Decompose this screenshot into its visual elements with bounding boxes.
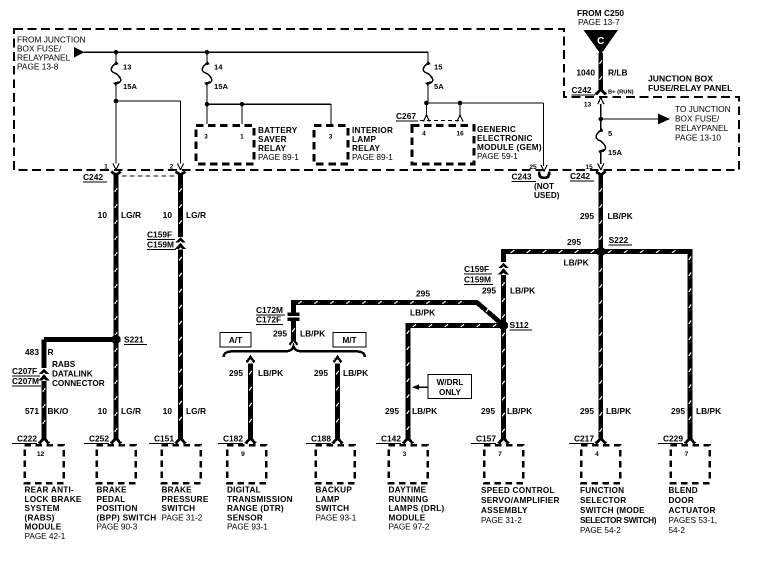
svg-text:S222: S222: [609, 235, 629, 245]
label 5A fuse15: [434, 82, 444, 91]
wire 571 BK/O: [43, 381, 46, 436]
pin arrow C242 pin1: [113, 164, 119, 171]
svg-text:RABS: RABS: [52, 360, 76, 369]
svg-text:SWITCH: SWITCH: [162, 504, 196, 513]
fuse 13: [111, 61, 121, 86]
wire 1040 R/LB: [600, 53, 603, 87]
connector C188: [306, 434, 355, 484]
svg-text:7: 7: [498, 451, 502, 458]
wire fuse14 to relays: [206, 84, 208, 124]
label fuse 14: [214, 63, 223, 72]
svg-text:CONNECTOR: CONNECTOR: [52, 379, 105, 388]
svg-text:SELECTOR SWITCH): SELECTOR SWITCH): [580, 516, 657, 525]
pin 1 battery saver: [240, 134, 244, 141]
svg-text:BK/O: BK/O: [48, 406, 69, 416]
label 15A fuse5: [608, 148, 622, 157]
svg-text:BRAKE: BRAKE: [97, 486, 128, 495]
wire GEM pin16 drop: [459, 103, 461, 115]
svg-text:PAGE 59-1: PAGE 59-1: [477, 152, 518, 161]
wire feed bus: [84, 51, 428, 53]
svg-text:SELECTOR: SELECTOR: [580, 496, 626, 505]
connector C242 dashed link: [122, 175, 175, 177]
wire fuse13 to C242 pin1: [115, 84, 117, 164]
svg-text:C222: C222: [17, 434, 37, 444]
svg-text:S112: S112: [510, 320, 529, 330]
wire 10 LG/R second upper: [179, 181, 182, 237]
label brake pressure switch: [162, 486, 209, 523]
svg-text:PAGE 54-2: PAGE 54-2: [580, 526, 621, 535]
svg-text:SWITCH: SWITCH: [316, 504, 350, 513]
svg-text:LB/PK: LB/PK: [507, 406, 532, 416]
svg-text:LOCK BRAKE: LOCK BRAKE: [25, 495, 82, 504]
svg-text:R/LB: R/LB: [608, 68, 628, 78]
M/T box: [333, 333, 366, 348]
svg-text:A/T: A/T: [229, 336, 242, 345]
label S221: [124, 335, 147, 345]
svg-text:3: 3: [329, 134, 333, 141]
svg-text:LB/PK: LB/PK: [606, 406, 631, 416]
label function selector switch: [580, 486, 657, 535]
svg-text:C267: C267: [396, 111, 416, 121]
label fuse 5: [608, 129, 613, 138]
svg-text:PAGE 13-7: PAGE 13-7: [578, 17, 620, 27]
svg-text:295: 295: [580, 211, 594, 221]
svg-text:C242: C242: [572, 85, 592, 95]
wire C172 drop upper: [291, 300, 296, 313]
label 10 LG/R lower1: [98, 406, 141, 416]
connector C243 cup: [539, 172, 549, 178]
svg-text:FUNCTION: FUNCTION: [580, 486, 624, 495]
connector C267 label: [396, 111, 418, 121]
connector C242 left label: [83, 172, 107, 182]
svg-text:483: 483: [25, 347, 39, 357]
pin 3 battery saver: [204, 134, 208, 141]
svg-text:C217: C217: [574, 434, 594, 444]
svg-text:9: 9: [241, 451, 245, 458]
label FROM JUNCTION BOX FUSE/RELAYPANEL PAGE 13-8: [17, 35, 86, 72]
node to-junction tap: [599, 117, 604, 122]
label C172M: [256, 305, 285, 315]
svg-text:1040: 1040: [576, 68, 595, 78]
svg-text:B+ (RUN): B+ (RUN): [608, 90, 634, 96]
fuse 15: [423, 61, 433, 86]
svg-text:RANGE (DTR): RANGE (DTR): [227, 504, 284, 513]
svg-text:RUNNING: RUNNING: [389, 495, 429, 504]
connector C159F/C159M right: [498, 263, 510, 275]
wire interior relay pin3 drop: [330, 104, 332, 124]
svg-text:S221: S221: [124, 335, 144, 345]
label 295 LB/PK main lower: [580, 406, 631, 416]
svg-text:5A: 5A: [434, 82, 444, 91]
svg-text:295: 295: [416, 289, 430, 299]
svg-text:10: 10: [98, 406, 108, 416]
chevron M/T branch top: [334, 357, 342, 362]
wire fuse5 upper: [600, 104, 602, 130]
W/DRL arrow: [412, 384, 428, 390]
wire 10 LG/R left: [115, 181, 118, 436]
svg-text:LAMP: LAMP: [352, 135, 376, 144]
label 10 LG/R lower2: [163, 406, 206, 416]
connector C151: [149, 434, 201, 484]
label 571 BK/O: [25, 406, 69, 416]
label generic electronic module: [477, 125, 542, 161]
wire fuse5 lower: [600, 152, 602, 164]
svg-text:13: 13: [584, 102, 592, 109]
wire C172 horizontal: [291, 301, 478, 304]
wire S112 to C157: [502, 326, 505, 437]
svg-text:C172M: C172M: [256, 305, 283, 315]
label R/LB: [608, 68, 628, 78]
svg-text:ACTUATOR: ACTUATOR: [669, 506, 716, 515]
svg-text:PAGE 89-1: PAGE 89-1: [258, 153, 299, 162]
label junction box fuse/relay panel: [648, 74, 732, 94]
pin chevron GEM pin16: [457, 115, 463, 122]
connector C142: [376, 434, 428, 484]
svg-text:15A: 15A: [123, 82, 137, 91]
svg-text:295: 295: [671, 406, 685, 416]
svg-text:295: 295: [385, 406, 399, 416]
svg-text:295: 295: [567, 237, 581, 247]
label LB/PK under c172 horiz: [410, 308, 435, 318]
label 295 LB/PK c157: [481, 406, 532, 416]
label not used: [534, 182, 560, 200]
label 15A fuse13: [123, 82, 137, 91]
svg-text:10: 10: [163, 406, 173, 416]
svg-text:POSITION: POSITION: [97, 504, 138, 513]
svg-text:BLEND: BLEND: [669, 486, 698, 495]
svg-text:PAGE 13-8: PAGE 13-8: [17, 62, 59, 72]
pin chevron GEM pin4: [424, 115, 430, 122]
label 295 LB/PK c142: [385, 406, 437, 416]
label C172F: [256, 315, 283, 325]
svg-text:DAYTIME: DAYTIME: [389, 486, 427, 495]
label 295 LB/PK c172: [273, 329, 325, 339]
wire battery saver pin1 drop: [241, 104, 243, 124]
wire A/T branch: [249, 364, 252, 437]
svg-text:LAMPS (DRL): LAMPS (DRL): [389, 504, 445, 513]
svg-text:PAGE 42-1: PAGE 42-1: [25, 532, 66, 541]
connector C172M/C172F: [288, 313, 300, 322]
svg-text:LB/PK: LB/PK: [510, 286, 535, 296]
connector C217: [569, 434, 620, 484]
svg-text:FUSE/RELAY PANEL: FUSE/RELAY PANEL: [648, 83, 732, 93]
svg-text:W/DRL: W/DRL: [437, 378, 464, 387]
svg-text:13: 13: [123, 63, 131, 72]
svg-text:SERVO/AMPLIFIER: SERVO/AMPLIFIER: [481, 496, 560, 505]
svg-text:SWITCH (MODE: SWITCH (MODE: [580, 506, 645, 515]
label fuse 13: [123, 63, 131, 72]
label 483 R: [25, 347, 54, 357]
node relay bus left: [205, 102, 210, 107]
label DRL module: [389, 486, 445, 532]
svg-text:12: 12: [37, 451, 45, 458]
label TO JUNCTION BOX FUSE/RELAYPANEL PAGE 13-10: [675, 104, 731, 143]
wire GEM bus to C243: [543, 103, 545, 166]
wire C172 drop lower: [292, 321, 295, 341]
label fuse 15: [434, 63, 443, 72]
wire M/T branch: [336, 364, 339, 437]
svg-text:INTERIOR: INTERIOR: [352, 126, 393, 135]
svg-text:PAGE 90-3: PAGE 90-3: [97, 523, 138, 532]
brace A/T M/T: [224, 346, 366, 357]
wire 483 R: [44, 340, 116, 369]
connector C243 label: [512, 172, 537, 182]
battery saver relay box: [196, 126, 254, 165]
arrow from junction box feed: [74, 47, 85, 57]
label 1040: [576, 68, 595, 78]
svg-text:SAVER: SAVER: [258, 135, 287, 144]
svg-text:JUNCTION BOX: JUNCTION BOX: [648, 74, 713, 84]
svg-text:295: 295: [482, 286, 496, 296]
pin 3 interior relay: [329, 134, 333, 141]
node fuse14 tap: [205, 50, 210, 55]
svg-text:LAMP: LAMP: [316, 495, 340, 504]
svg-text:LG/R: LG/R: [121, 210, 141, 220]
svg-text:LB/PK: LB/PK: [258, 368, 283, 378]
wire 10 LG/R second lower: [179, 250, 182, 437]
label RABS datalink connector: [52, 360, 105, 388]
pin arrow fuse5 top: [598, 98, 604, 105]
wire relay bus: [207, 103, 331, 105]
svg-text:25: 25: [529, 164, 537, 171]
svg-text:15A: 15A: [214, 82, 228, 91]
triangle connector C: [584, 30, 619, 55]
pin 16 GEM: [456, 131, 464, 138]
svg-text:4: 4: [422, 131, 426, 138]
label C159F right: [464, 264, 492, 274]
pin 15 label: [585, 164, 593, 171]
svg-text:C: C: [597, 36, 604, 47]
svg-text:4: 4: [595, 451, 599, 458]
label BPP switch: [97, 486, 157, 532]
svg-text:C242: C242: [83, 172, 103, 182]
svg-text:1: 1: [240, 134, 244, 141]
svg-text:DOOR: DOOR: [669, 496, 695, 505]
chevron A/T branch top: [247, 357, 255, 362]
label 295 LB/PK c159 branch: [482, 286, 535, 296]
svg-text:TO JUNCTION: TO JUNCTION: [675, 104, 731, 114]
svg-text:15A: 15A: [608, 148, 622, 157]
node fuse13 branch: [114, 99, 119, 104]
node fuse13 tap: [114, 50, 119, 55]
svg-text:ONLY: ONLY: [439, 388, 462, 397]
svg-text:C159M: C159M: [464, 275, 491, 285]
pin 2 label: [170, 164, 174, 171]
svg-text:LB/PK: LB/PK: [300, 329, 325, 339]
wire fuse15 to GEM: [426, 84, 544, 103]
label 15A fuse14: [214, 82, 228, 91]
label DTR sensor: [227, 486, 293, 532]
fuse 5: [596, 128, 606, 154]
label 295 over c172 horiz: [416, 289, 430, 299]
svg-text:PAGE 31-2: PAGE 31-2: [162, 513, 203, 522]
svg-text:TRANSMISSION: TRANSMISSION: [227, 495, 293, 504]
GEM box: [412, 126, 474, 165]
wire fuse15 drop: [427, 52, 429, 63]
svg-text:C207M: C207M: [12, 376, 39, 386]
svg-text:295: 295: [229, 368, 243, 378]
svg-text:LB/PK: LB/PK: [412, 406, 437, 416]
connector C267 dashed line: [420, 120, 463, 122]
label LB/PK under S222 branch: [564, 257, 589, 267]
svg-text:295: 295: [314, 368, 328, 378]
label 295 LB/PK mt branch: [314, 368, 368, 378]
connector C242 pin2 goblet: [176, 172, 186, 182]
connector C242 top label: [572, 85, 596, 95]
svg-text:LB/PK: LB/PK: [343, 368, 368, 378]
pin 25 label: [529, 164, 537, 171]
svg-text:PAGES 53-1,: PAGES 53-1,: [669, 516, 718, 525]
connector C222: [12, 434, 64, 484]
label 295 LB/PK at branch: [229, 368, 283, 378]
label 10 LG/R upper2: [163, 210, 206, 220]
svg-text:DIGITAL: DIGITAL: [227, 486, 261, 495]
svg-text:C157: C157: [476, 434, 496, 444]
connector C159F/C159M left: [175, 237, 187, 249]
svg-text:C182: C182: [223, 434, 243, 444]
W/DRL ONLY box: [428, 375, 472, 399]
svg-text:PRESSURE: PRESSURE: [162, 495, 209, 504]
svg-text:LB/PK: LB/PK: [564, 257, 589, 267]
svg-text:SYSTEM: SYSTEM: [25, 504, 60, 513]
svg-text:C151: C151: [154, 434, 174, 444]
svg-text:1: 1: [104, 164, 108, 171]
wire S112 to C142: [406, 323, 504, 436]
svg-text:10: 10: [98, 210, 108, 220]
svg-text:2: 2: [170, 164, 174, 171]
pin 4 GEM: [422, 131, 426, 138]
svg-text:(BPP) SWITCH: (BPP) SWITCH: [97, 513, 157, 522]
svg-text:BACKUP: BACKUP: [316, 486, 353, 495]
svg-text:C207F: C207F: [12, 366, 37, 376]
wire diagonal to S112: [477, 303, 503, 325]
svg-text:SPEED CONTROL: SPEED CONTROL: [481, 486, 555, 495]
label S222: [609, 235, 632, 245]
svg-text:MODULE (GEM): MODULE (GEM): [477, 143, 542, 152]
label 295 LB/PK main upper: [580, 211, 633, 221]
wire fuse14 drop: [206, 52, 208, 63]
node battery saver pin1 tap: [240, 102, 245, 107]
connector C207F/C207M: [38, 369, 50, 381]
svg-text:C252: C252: [89, 434, 109, 444]
svg-text:7: 7: [685, 451, 689, 458]
junction box fuse/relay panel outline: [14, 29, 739, 170]
svg-text:C142: C142: [381, 434, 401, 444]
svg-text:PAGE 93-1: PAGE 93-1: [227, 523, 268, 532]
splice S112: [499, 321, 508, 330]
label battery saver relay: [258, 126, 299, 162]
svg-text:C159M: C159M: [147, 240, 174, 250]
connector C157: [471, 434, 523, 484]
svg-text:LG/R: LG/R: [186, 210, 206, 220]
connector C242 right goblet: [596, 172, 606, 182]
label C207F: [12, 366, 40, 376]
node GEM pin4 tap: [424, 101, 429, 106]
wire GEM pin4 drop: [426, 103, 428, 115]
svg-text:SENSOR: SENSOR: [227, 513, 263, 522]
label blend door actuator: [669, 486, 718, 535]
connector C242 right label: [570, 171, 594, 181]
pin 1 label: [104, 164, 108, 171]
svg-text:C188: C188: [311, 434, 331, 444]
svg-text:MODULE: MODULE: [389, 513, 426, 522]
svg-text:16: 16: [456, 131, 464, 138]
interior lamp relay box: [314, 126, 348, 165]
label RABS module: [25, 486, 82, 542]
svg-text:LB/PK: LB/PK: [608, 211, 633, 221]
splice S221: [111, 335, 120, 344]
svg-text:RELAY: RELAY: [258, 144, 287, 153]
connector C242 top claw: [595, 86, 607, 94]
svg-text:LG/R: LG/R: [186, 406, 206, 416]
wire 295 LB/PK main: [600, 181, 603, 436]
svg-text:LG/R: LG/R: [121, 406, 141, 416]
pin arrow C242 pin15: [598, 164, 604, 171]
svg-text:PAGE 89-1: PAGE 89-1: [352, 153, 393, 162]
svg-text:BOX FUSE/: BOX FUSE/: [675, 114, 720, 124]
A/T box: [220, 333, 251, 348]
svg-text:ELECTRONIC: ELECTRONIC: [477, 134, 533, 143]
label backup lamp switch: [316, 486, 357, 523]
label S112: [510, 320, 533, 330]
svg-text:PAGE 13-10: PAGE 13-10: [675, 133, 721, 143]
svg-text:C242: C242: [570, 171, 590, 181]
svg-text:571: 571: [25, 406, 39, 416]
connector C182: [218, 434, 266, 484]
svg-text:295: 295: [481, 406, 495, 416]
pin arrow C243 pin25: [541, 165, 547, 172]
label C159F left: [147, 230, 175, 240]
svg-text:M/T: M/T: [342, 336, 356, 345]
wire S222 to C159F: [504, 249, 601, 262]
label C159M left: [147, 240, 176, 250]
svg-text:PAGE 31-2: PAGE 31-2: [481, 516, 522, 525]
node GEM pin16 tap: [458, 101, 463, 106]
wire C159M to S112: [502, 275, 505, 326]
pin 13 label: [584, 102, 592, 109]
svg-text:PAGE 97-2: PAGE 97-2: [389, 523, 430, 532]
connector C252: [84, 434, 136, 484]
connector C242 pin1 goblet: [111, 172, 121, 182]
svg-text:C243: C243: [512, 172, 532, 182]
label C207M: [12, 376, 41, 386]
svg-text:BATTERY: BATTERY: [258, 126, 298, 135]
svg-text:USED): USED): [534, 191, 560, 200]
svg-text:RELAY: RELAY: [352, 144, 381, 153]
wire fuse13 drop: [115, 52, 117, 63]
svg-text:(NOT: (NOT: [534, 182, 554, 191]
svg-text:295: 295: [273, 329, 287, 339]
svg-text:C159F: C159F: [464, 264, 489, 274]
fuse 14: [202, 61, 212, 86]
label FROM C250 PAGE 13-7: [577, 8, 624, 27]
svg-text:15: 15: [585, 164, 593, 171]
svg-text:14: 14: [214, 63, 223, 72]
label B+ (RUN): [608, 90, 634, 96]
wire branch to pin2: [116, 101, 181, 164]
svg-text:PAGE 93-1: PAGE 93-1: [316, 513, 357, 522]
svg-text:C229: C229: [663, 434, 683, 444]
svg-text:R: R: [48, 347, 54, 357]
svg-text:BRAKE: BRAKE: [162, 486, 193, 495]
label interior lamp relay: [352, 126, 393, 162]
svg-text:3: 3: [403, 451, 407, 458]
wire S222 to C229: [601, 249, 693, 436]
svg-text:DATALINK: DATALINK: [52, 370, 93, 379]
svg-text:C172F: C172F: [256, 315, 281, 325]
svg-text:LB/PK: LB/PK: [696, 406, 721, 416]
chevron end of C172 wire: [290, 340, 298, 345]
